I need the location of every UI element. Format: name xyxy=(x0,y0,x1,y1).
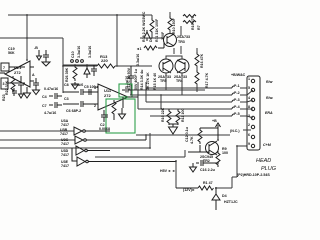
label column extra xyxy=(153,31,165,90)
node stub P-4 xyxy=(232,105,253,109)
node input pin box 7 xyxy=(1,63,25,71)
wire second rail xyxy=(0,37,63,39)
wire risers x138 x146 xyxy=(138,82,146,109)
head plug connector xyxy=(247,76,260,150)
svg-text:7: 7 xyxy=(3,66,5,70)
svg-text:R1 47: R1 47 xyxy=(203,181,213,185)
wire left bus 3 xyxy=(0,133,150,148)
label C12 xyxy=(185,127,189,142)
transistor TR4 xyxy=(174,59,189,83)
green box small xyxy=(119,84,132,97)
svg-text:-B: -B xyxy=(34,46,38,50)
svg-text:272: 272 xyxy=(14,70,21,75)
label NC xyxy=(230,129,251,133)
wire left bus 2 xyxy=(0,139,75,141)
label column x137 xyxy=(136,54,140,66)
svg-text:ERA: ERA xyxy=(265,111,273,115)
diode D5 xyxy=(84,65,90,78)
svg-text:C16 2.2u: C16 2.2u xyxy=(200,168,215,172)
pin numbers U11 xyxy=(94,86,96,108)
ground cap row xyxy=(72,82,79,89)
svg-text:R10 150F: R10 150F xyxy=(172,17,176,34)
power -B arrow xyxy=(34,46,42,60)
gate U3B xyxy=(60,127,110,136)
label U3A xyxy=(61,119,69,127)
svg-text:R/w: R/w xyxy=(266,80,273,84)
svg-text:P-4: P-4 xyxy=(234,105,240,109)
svg-text:C7: C7 xyxy=(42,104,47,108)
svg-text:4.7u/16: 4.7u/16 xyxy=(44,111,56,115)
svg-text:R10 22K: R10 22K xyxy=(161,107,165,122)
svg-text:(12V)►: (12V)► xyxy=(183,188,195,192)
svg-text:C11 0.1u 50V: C11 0.1u 50V xyxy=(127,67,131,90)
svg-text:100u/6: 100u/6 xyxy=(72,83,83,87)
capacitor C17 xyxy=(33,78,40,95)
resistor R21 vertical xyxy=(73,65,77,81)
svg-text:R17 4.7K: R17 4.7K xyxy=(205,72,209,88)
svg-text:2: 2 xyxy=(248,123,250,127)
wire pair tails xyxy=(166,48,197,95)
svg-text:+B: +B xyxy=(212,119,217,123)
svg-text:0.47u/16: 0.47u/16 xyxy=(44,87,58,91)
svg-text:3: 3 xyxy=(94,86,96,90)
wire feedback vertical xyxy=(26,15,28,60)
svg-text:HZT1JC: HZT1JC xyxy=(224,200,238,204)
capacitor C near R22 xyxy=(18,76,24,91)
resistor R8 xyxy=(190,128,218,144)
capacitor C3 row xyxy=(63,97,98,113)
capacitor in small green box xyxy=(122,88,131,93)
node junction dots xyxy=(26,37,238,164)
svg-text:P-1: P-1 xyxy=(234,84,240,88)
resistor R18 xyxy=(150,18,154,34)
resistor R1 xyxy=(198,181,217,190)
wire mid rail y66 xyxy=(63,65,152,67)
wire bus y135 xyxy=(136,134,230,136)
node stub P-2 xyxy=(232,90,253,95)
op-amp U21 xyxy=(0,61,34,87)
svg-text:R15 1K 40: R15 1K 40 xyxy=(153,73,157,90)
capacitor C4 C7 block xyxy=(42,87,62,115)
svg-text:P-3: P-3 xyxy=(234,98,240,102)
svg-text:0.0068: 0.0068 xyxy=(99,127,110,131)
wire C9 to bus xyxy=(131,86,161,109)
svg-text:+B/W&C: +B/W&C xyxy=(231,73,246,77)
svg-text:50V 400F 1u: 50V 400F 1u xyxy=(134,69,138,90)
capacitor C11 xyxy=(91,65,97,76)
svg-text:C3: C3 xyxy=(64,97,69,101)
svg-text:P-2: P-2 xyxy=(234,91,240,95)
svg-text:R16 47K: R16 47K xyxy=(200,53,204,68)
svg-text:8: 8 xyxy=(248,105,250,109)
node input arrow TR3 xyxy=(136,42,164,51)
svg-text:4: 4 xyxy=(248,96,250,100)
ground TR2 xyxy=(190,163,197,172)
node A xyxy=(32,73,35,77)
wire rail to R18 xyxy=(150,15,152,38)
wire to plug 4 xyxy=(138,108,232,110)
wire +12V feed xyxy=(176,188,198,192)
svg-text:TR2: TR2 xyxy=(203,159,210,163)
transistor TR2 xyxy=(188,141,219,163)
svg-text:9: 9 xyxy=(248,142,250,146)
capacitor C2 xyxy=(99,110,110,131)
svg-text:272: 272 xyxy=(104,93,111,98)
wire vertical x117 xyxy=(116,15,118,66)
resistor R19 xyxy=(183,15,196,24)
label R/W2 xyxy=(266,96,273,100)
svg-text:C+M: C+M xyxy=(263,143,272,147)
svg-text:H5V ►◄: H5V ►◄ xyxy=(160,169,175,173)
svg-text:D4: D4 xyxy=(222,194,227,198)
label HEAD PLUG xyxy=(237,158,277,177)
capacitor C10 bank labels xyxy=(71,46,92,63)
wire green box node xyxy=(122,97,124,108)
resistor R11b xyxy=(176,109,185,125)
wire to plug 2 xyxy=(138,94,232,96)
transistor TR3 xyxy=(164,34,191,47)
wire vertical x63 xyxy=(62,38,64,93)
gate U3C xyxy=(61,135,146,146)
resistor inside green box xyxy=(112,100,116,120)
svg-text:R23: R23 xyxy=(2,94,6,101)
label ERASE xyxy=(265,111,273,115)
ground mid xyxy=(169,124,179,134)
wire to plug 1 xyxy=(146,87,232,89)
svg-text:100F: 100F xyxy=(161,31,165,40)
wire U11 output xyxy=(128,96,138,98)
resistor R10 xyxy=(168,16,172,32)
svg-text:7417: 7417 xyxy=(60,132,68,136)
svg-text:7417: 7417 xyxy=(61,164,69,168)
capacitor C5 electrolytic xyxy=(83,85,98,95)
wire TR3 top xyxy=(169,12,171,34)
capacitor C8 rows xyxy=(63,83,98,95)
svg-text:R22 33K: R22 33K xyxy=(5,80,9,95)
capacitor C21 xyxy=(42,50,50,66)
svg-text:C4: C4 xyxy=(42,95,47,99)
svg-text:R26 39K: R26 39K xyxy=(65,67,69,82)
green box large xyxy=(106,99,135,133)
svg-text:7417: 7417 xyxy=(61,123,69,127)
node input pin box 3 xyxy=(1,78,25,89)
resistor R20 label xyxy=(8,47,15,55)
resistor R17 xyxy=(195,70,209,88)
capacitor C9 column xyxy=(125,66,134,88)
svg-text:56K: 56K xyxy=(8,51,15,55)
svg-text:100: 100 xyxy=(222,151,228,155)
svg-text:1: 1 xyxy=(248,77,250,81)
node stub P-5 xyxy=(232,112,253,118)
vertical labels column C11 xyxy=(127,67,150,90)
wire TR3 links xyxy=(140,26,181,54)
svg-text:C6 68P-2: C6 68P-2 xyxy=(66,109,81,113)
wire riser x176 xyxy=(175,161,177,188)
wire diff pair xyxy=(166,48,182,59)
resistor R10b xyxy=(161,107,171,125)
diode D4 xyxy=(212,188,238,210)
svg-text:3.3u/16: 3.3u/16 xyxy=(136,54,140,66)
svg-text:PLUG: PLUG xyxy=(261,166,277,172)
svg-text:2: 2 xyxy=(94,104,96,108)
resistor R23 and cap xyxy=(2,88,24,101)
node stub P-1 xyxy=(232,84,247,88)
capacitor C16 xyxy=(196,160,218,172)
svg-text:4.7K: 4.7K xyxy=(190,136,194,144)
svg-text:2SA733: 2SA733 xyxy=(177,35,190,39)
svg-text:C8: C8 xyxy=(64,83,69,87)
svg-text:3.3u/16: 3.3u/16 xyxy=(88,46,92,58)
resistor R9 xyxy=(216,147,228,167)
svg-text:◄1: ◄1 xyxy=(136,47,142,51)
resistor R16 xyxy=(195,52,204,68)
wire cap row xyxy=(63,64,97,66)
diode D8 xyxy=(144,30,150,41)
label +5V mark xyxy=(160,169,175,173)
svg-text:7417: 7417 xyxy=(61,153,69,157)
svg-text:TR3: TR3 xyxy=(178,40,185,44)
power +B arrow TR2 xyxy=(212,119,221,130)
svg-text:6: 6 xyxy=(248,133,250,137)
wire from plug bottom xyxy=(216,146,247,188)
label +B W&C xyxy=(231,73,246,77)
transistor TR5 xyxy=(158,59,173,83)
svg-text:HEAD: HEAD xyxy=(256,158,271,164)
svg-text:7417: 7417 xyxy=(61,142,69,146)
resistor R22 xyxy=(5,76,15,95)
svg-text:R14 3.3K 4u: R14 3.3K 4u xyxy=(140,70,144,90)
label R/W xyxy=(266,80,273,84)
svg-text:(P2)HRD-10P-2.54S: (P2)HRD-10P-2.54S xyxy=(237,173,270,177)
svg-text:R/w.: R/w. xyxy=(266,96,273,100)
gate U3D xyxy=(61,146,110,157)
resistor R13 xyxy=(97,54,115,68)
svg-text:(N.C.): (N.C.) xyxy=(230,129,240,133)
wire to plug 5 xyxy=(150,115,232,117)
op-amp U11 xyxy=(98,84,128,110)
ground below U21 xyxy=(24,87,31,98)
svg-text:P-5: P-5 xyxy=(234,112,240,116)
wire left bus 1 xyxy=(0,130,74,132)
svg-text:C12 0.1u: C12 0.1u xyxy=(185,127,189,142)
svg-text:C10: C10 xyxy=(71,51,75,58)
resistor R26 label xyxy=(65,67,69,82)
ground in green box xyxy=(119,108,126,119)
vertical labels column R18 xyxy=(142,11,201,42)
label C+M xyxy=(263,143,272,147)
wire top +B rail xyxy=(8,14,150,16)
svg-text:R11 100: R11 100 xyxy=(181,109,185,122)
wire bus y157 xyxy=(95,150,185,157)
svg-text:3.3u/16: 3.3u/16 xyxy=(77,46,81,58)
svg-text:R7: R7 xyxy=(197,25,201,30)
svg-text:220: 220 xyxy=(101,58,108,63)
wire lower rails xyxy=(130,90,205,95)
svg-text:5: 5 xyxy=(248,86,250,90)
svg-text:3K 27K 1K: 3K 27K 1K xyxy=(146,72,150,90)
gate U3E xyxy=(61,148,176,168)
node stub P-3 xyxy=(232,98,253,102)
wire to plug 3 xyxy=(146,101,232,103)
svg-text:A: A xyxy=(32,73,35,77)
